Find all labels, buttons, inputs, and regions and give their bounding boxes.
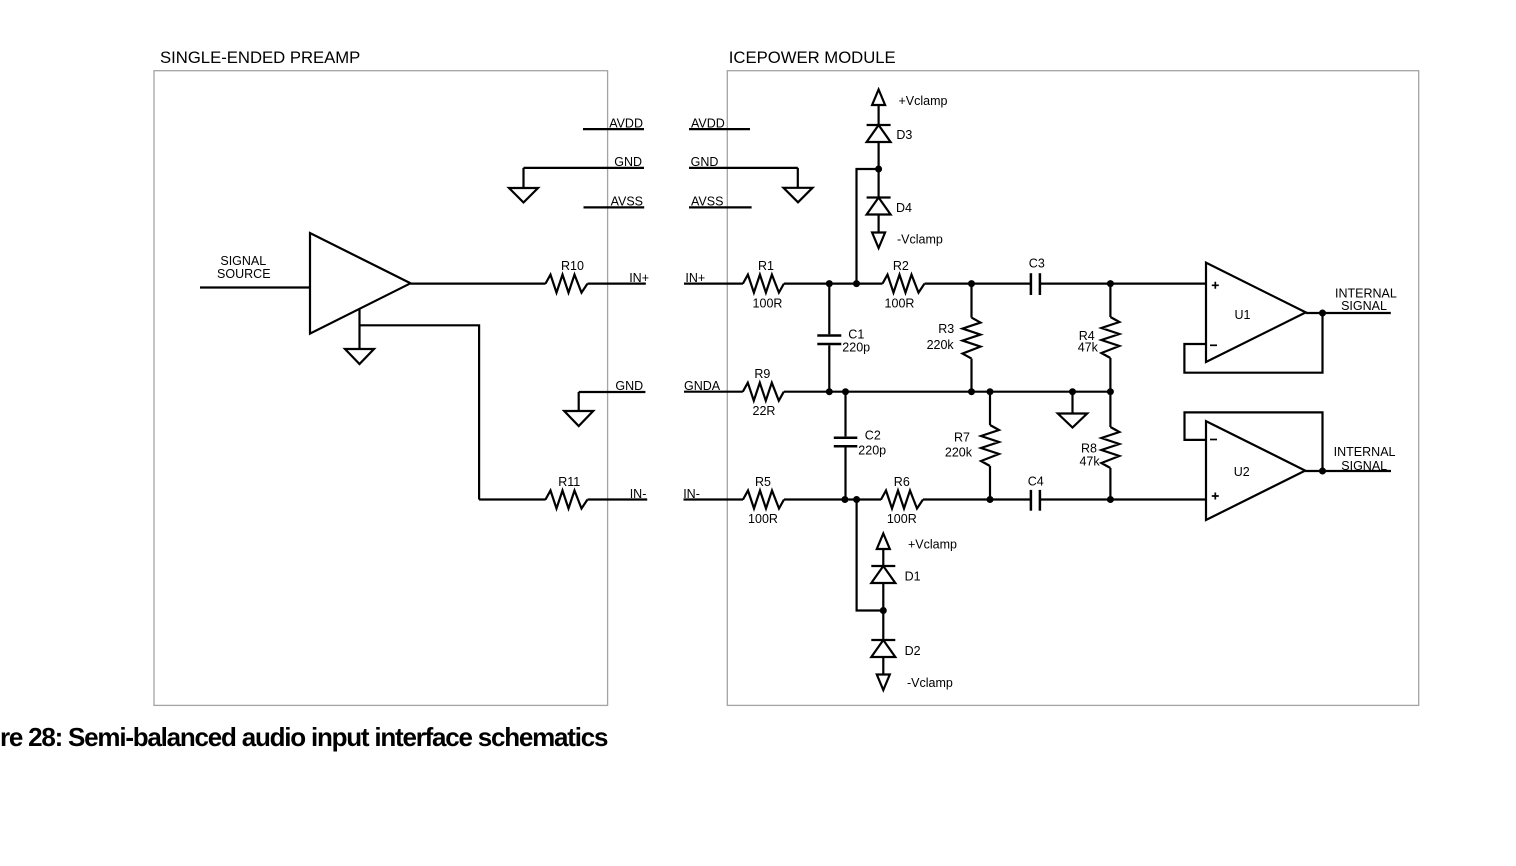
- svg-text:GND: GND: [614, 155, 642, 169]
- svg-text:220k: 220k: [945, 446, 973, 460]
- svg-text:-Vclamp: -Vclamp: [897, 233, 943, 247]
- svg-text:D1: D1: [905, 569, 921, 583]
- svg-text:GND: GND: [615, 379, 643, 393]
- svg-text:D4: D4: [896, 201, 912, 215]
- svg-text:R9: R9: [754, 367, 770, 381]
- svg-text:220k: 220k: [927, 338, 955, 352]
- svg-text:R8: R8: [1081, 442, 1097, 456]
- svg-text:IN+: IN+: [629, 271, 649, 285]
- svg-text:AVDD: AVDD: [691, 116, 725, 130]
- svg-text:SIGNAL: SIGNAL: [1341, 459, 1387, 473]
- svg-text:220p: 220p: [858, 444, 886, 458]
- svg-text:D3: D3: [896, 128, 912, 142]
- svg-text:47k: 47k: [1079, 455, 1100, 469]
- svg-text:100R: 100R: [753, 297, 783, 311]
- svg-text:R5: R5: [755, 475, 771, 489]
- svg-text:ICEPOWER MODULE: ICEPOWER MODULE: [729, 48, 896, 67]
- svg-text:INTERNAL: INTERNAL: [1334, 445, 1396, 459]
- svg-text:22R: 22R: [753, 404, 776, 418]
- svg-text:IN+: IN+: [685, 271, 705, 285]
- svg-text:SINGLE-ENDED PREAMP: SINGLE-ENDED PREAMP: [160, 48, 360, 67]
- svg-text:R1: R1: [758, 259, 774, 273]
- svg-text:C2: C2: [865, 429, 881, 443]
- svg-text:100R: 100R: [748, 512, 778, 526]
- svg-text:R7: R7: [954, 431, 970, 445]
- svg-text:C4: C4: [1028, 474, 1044, 488]
- svg-text:+Vclamp: +Vclamp: [908, 538, 957, 552]
- svg-text:AVSS: AVSS: [691, 195, 723, 209]
- svg-text:100R: 100R: [887, 512, 917, 526]
- svg-text:R11: R11: [558, 475, 580, 489]
- svg-text:IN-: IN-: [683, 487, 700, 501]
- svg-text:C3: C3: [1029, 257, 1045, 271]
- svg-text:220p: 220p: [842, 341, 870, 355]
- svg-text:GNDA: GNDA: [684, 379, 721, 393]
- svg-text:U1: U1: [1235, 308, 1251, 322]
- svg-text:R10: R10: [561, 259, 584, 273]
- svg-text:D2: D2: [905, 644, 921, 658]
- svg-text:IN-: IN-: [630, 487, 647, 501]
- svg-text:100R: 100R: [885, 297, 915, 311]
- svg-text:AVSS: AVSS: [611, 195, 643, 209]
- svg-text:47k: 47k: [1078, 341, 1099, 355]
- svg-text:R2: R2: [893, 259, 909, 273]
- svg-text:R6: R6: [894, 475, 910, 489]
- svg-text:GND: GND: [691, 155, 719, 169]
- svg-text:-Vclamp: -Vclamp: [907, 676, 953, 690]
- svg-text:SIGNAL: SIGNAL: [1341, 299, 1387, 313]
- svg-text:AVDD: AVDD: [609, 116, 643, 130]
- svg-text:R3: R3: [938, 322, 954, 336]
- svg-text:U2: U2: [1234, 465, 1250, 479]
- svg-text:+Vclamp: +Vclamp: [899, 94, 948, 108]
- svg-text:SOURCE: SOURCE: [217, 267, 270, 281]
